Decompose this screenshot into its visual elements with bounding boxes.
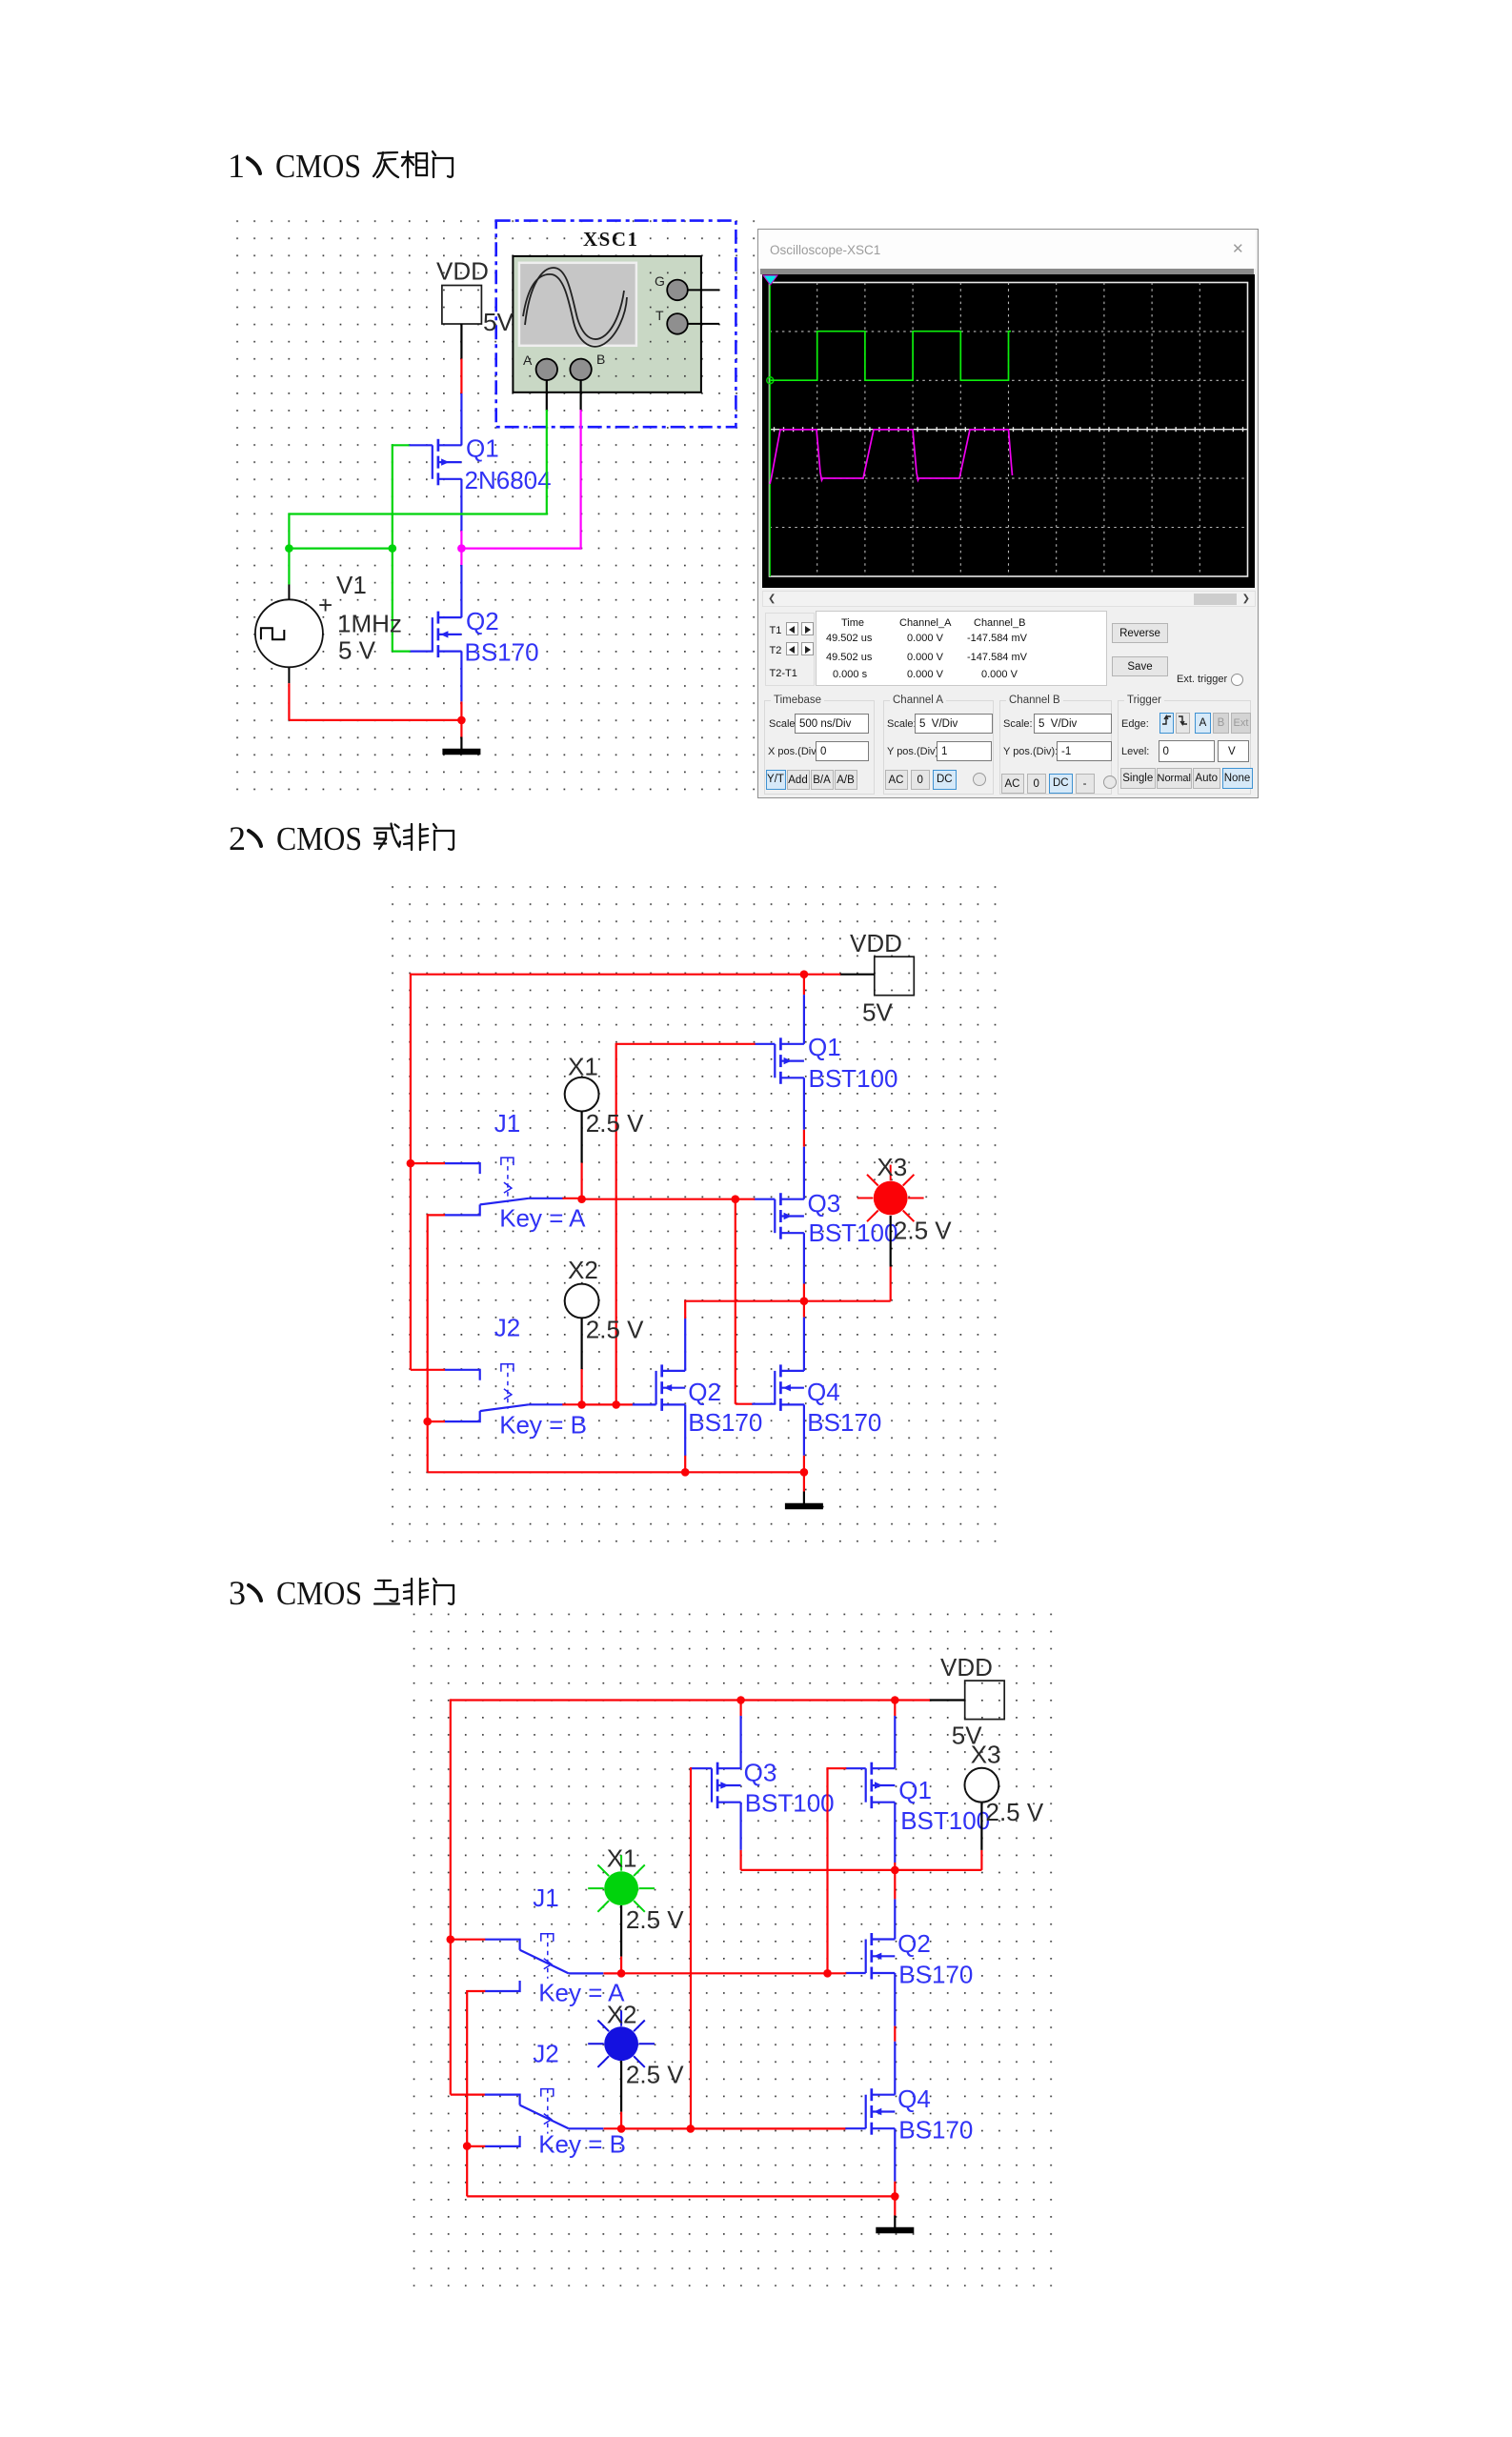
- junction VDD node: [800, 970, 809, 978]
- svg-text:BS170: BS170: [688, 1408, 762, 1437]
- transistor Q4 BS170 circuit3 (NMOS): [866, 2088, 896, 2135]
- wire output rail right: [895, 1869, 981, 1871]
- junction ground node: [891, 2192, 899, 2201]
- svg-text:X3: X3: [877, 1153, 907, 1181]
- wire J1 top contact lead red: [451, 1939, 486, 1941]
- power symbol VDD supply circuit2: [875, 957, 915, 995]
- wire VDD rail top: [411, 974, 804, 976]
- junction ground node Q2: [681, 1468, 690, 1477]
- wire key A net horizontal: [621, 1972, 827, 1974]
- svg-text:1: 1: [228, 147, 245, 185]
- wire VDD net red: [804, 974, 840, 976]
- wire VDD rail left vertical lower: [410, 1163, 412, 1370]
- wire ground stem red: [803, 1472, 805, 1491]
- wire VDD rail top: [451, 1699, 896, 1701]
- junction input node at V1: [285, 544, 293, 553]
- junction key B node: [612, 1400, 620, 1409]
- wire X1 stem black: [580, 1112, 582, 1163]
- wire Q1 gate lead blue: [409, 444, 433, 446]
- junction key A node at Q3: [732, 1195, 740, 1203]
- wire red segment Q3-Q4: [803, 1284, 805, 1318]
- svg-text:BS170: BS170: [465, 638, 539, 667]
- wire probe A vertical: [546, 410, 548, 514]
- wire output net magenta segment: [460, 531, 462, 565]
- transistor Q2 BS170 circuit3 (NMOS): [866, 1933, 896, 1980]
- junction key A node at Q2: [823, 1969, 832, 1978]
- wire Q3 source lead: [803, 1147, 805, 1199]
- wire switch common vertical lower: [466, 2146, 468, 2197]
- indicator lamp X1 circuit3 (lit): [588, 1855, 655, 1912]
- wire key B net horizontal 1: [621, 2127, 691, 2129]
- transistor Q1 BST100 circuit3 (PMOS): [866, 1762, 896, 1809]
- wire Q2 drain lead: [460, 565, 462, 617]
- wire X3 stem red: [980, 1850, 982, 1870]
- svg-text:Q4: Q4: [807, 1378, 840, 1406]
- svg-text:Q1: Q1: [898, 1776, 932, 1804]
- svg-text:VDD: VDD: [850, 929, 902, 957]
- wire input net vertical: [392, 444, 393, 651]
- wire X3 stem red: [890, 1267, 892, 1301]
- junction J1 supply node: [407, 1159, 415, 1168]
- ground circuit 1 ground: [442, 737, 480, 753]
- svg-text:5V: 5V: [862, 998, 893, 1027]
- junction key B node at Q3 branch: [687, 2125, 696, 2133]
- wire Q4 source lead: [803, 1404, 805, 1455]
- wire input net to Q2 gate: [393, 650, 412, 652]
- svg-text:VDD: VDD: [436, 257, 489, 286]
- ground circuit 2 ground: [785, 1492, 823, 1507]
- junction ground node Q4: [800, 1468, 809, 1477]
- wire Q1 source lead: [894, 1716, 896, 1768]
- wire ground rail right: [685, 1471, 804, 1473]
- svg-text:5V: 5V: [483, 308, 514, 336]
- indicator lamp X3 circuit3: [965, 1768, 999, 1803]
- junction key A node at X1: [577, 1195, 586, 1203]
- svg-text:VDD: VDD: [940, 1653, 993, 1682]
- wire Q2 drain lead: [894, 1899, 896, 1939]
- wire Q2 drain lead: [684, 1319, 686, 1371]
- wire VDD rail left vertical upper: [450, 1699, 452, 1939]
- wire switch common vertical upper: [427, 1214, 429, 1421]
- wire ground rail: [467, 2195, 895, 2197]
- wire X2 stem black: [580, 1318, 582, 1369]
- wire Q4 source lead: [894, 2128, 896, 2182]
- wire output net to probe B: [461, 547, 580, 549]
- wire key A to Q2 gate red: [828, 1972, 847, 1974]
- wire Q3 gate lead blue: [754, 1198, 775, 1200]
- ground circuit 3 ground: [876, 2216, 914, 2231]
- wire Q1 source red segment: [803, 975, 805, 995]
- wire Q3 source red segment: [739, 1701, 741, 1717]
- svg-text:BS170: BS170: [898, 1961, 973, 1989]
- svg-text:BST100: BST100: [809, 1218, 898, 1247]
- source V1 square wave generator: [255, 585, 333, 684]
- indicator lamp X2 circuit3 (lit): [588, 2010, 655, 2067]
- svg-text:CMOS: CMOS: [276, 820, 362, 857]
- wire VDD rail left vertical lower: [450, 1940, 452, 2095]
- switch J1 circuit3 (SPDT): [485, 1934, 604, 1991]
- svg-text:2.5 V: 2.5 V: [986, 1798, 1044, 1826]
- junction VDD node Q3: [736, 1696, 745, 1704]
- wire J2 top contact lead red: [451, 2094, 486, 2096]
- transistor Q3 BST100 circuit2 (PMOS): [775, 1193, 804, 1239]
- wire output rail left: [741, 1869, 896, 1871]
- wire Q1 source lead: [460, 393, 462, 445]
- wire key A net to Q3 gate: [736, 1198, 756, 1200]
- svg-text:BS170: BS170: [807, 1408, 881, 1437]
- wire J1 bottom contact lead red: [428, 1214, 445, 1216]
- op oscilloscope window XSC1: [757, 229, 1259, 798]
- wire VDD lead black: [929, 1699, 965, 1701]
- wire key A net vertical: [826, 1767, 828, 1973]
- wire J2 pole lead red: [562, 1403, 581, 1405]
- switch J2 circuit3 (SPDT): [485, 2089, 604, 2146]
- transistor Q4 BS170 circuit2 (NMOS): [775, 1364, 804, 1411]
- wire ground stem red: [894, 2196, 896, 2215]
- wire key B net vertical: [690, 1767, 692, 2128]
- svg-text:Key = A: Key = A: [499, 1204, 586, 1233]
- label section title 1 CMOS inverter: [228, 147, 453, 185]
- svg-text:Q1: Q1: [466, 434, 499, 463]
- switch J2 circuit2 (SPDT): [445, 1364, 564, 1421]
- wire VDD lead black: [839, 974, 875, 976]
- wire J2 bottom contact lead red: [428, 1420, 445, 1422]
- indicator lamp X3 circuit2 (lit): [857, 1165, 924, 1222]
- svg-text:Q2: Q2: [897, 1929, 931, 1958]
- svg-text:2.5 V: 2.5 V: [894, 1217, 952, 1245]
- wire X1 stem black: [620, 1905, 622, 1957]
- wire ground rail left: [428, 1471, 686, 1473]
- svg-text:CMOS: CMOS: [275, 148, 361, 185]
- label section title 3 CMOS NAND gate: [229, 1574, 454, 1612]
- svg-text:BS170: BS170: [898, 2116, 973, 2145]
- wire output rail right: [804, 1300, 891, 1302]
- wire Q2 source lead: [894, 1973, 896, 2026]
- wire X1 stem red: [580, 1163, 582, 1199]
- wire Q3 drain lead: [803, 1233, 805, 1283]
- svg-text:Q3: Q3: [808, 1189, 841, 1218]
- wire red segment Q2-Q4: [894, 2026, 896, 2042]
- svg-text:1MHz: 1MHz: [337, 610, 402, 638]
- wire switch common vertical upper: [466, 1990, 468, 2146]
- wire Q1 source lead: [803, 995, 805, 1044]
- svg-text:Q4: Q4: [897, 2085, 931, 2113]
- junction J1 supply node: [447, 1935, 455, 1944]
- wire key A net to Q1 gate: [828, 1767, 847, 1769]
- transistor Q2 BS170 (NMOS): [433, 612, 462, 658]
- svg-text:CMOS: CMOS: [276, 1575, 362, 1612]
- wire scope probe A stem: [546, 380, 548, 411]
- wire Q4 drain lead: [803, 1318, 805, 1371]
- wire Q2 source lead: [684, 1404, 686, 1455]
- wire scope probe B stem: [579, 380, 581, 411]
- wire Q1 drain lead: [894, 1803, 896, 1863]
- wire VDD net red segment: [460, 359, 462, 394]
- wire output rail left: [684, 1300, 804, 1302]
- svg-text:A: A: [523, 352, 533, 368]
- wire V1 negative lead red: [288, 683, 290, 720]
- wire key A net vertical: [735, 1199, 736, 1404]
- wire Q3 gate lead blue: [691, 1767, 712, 1769]
- wire key B net horizontal 1: [582, 1403, 616, 1405]
- svg-text:XSC1: XSC1: [583, 228, 639, 251]
- wire J2 bottom contact lead red: [467, 2145, 485, 2147]
- svg-text:J1: J1: [533, 1883, 558, 1912]
- svg-text:5 V: 5 V: [338, 636, 376, 665]
- wire Q4 gate lead blue: [845, 2127, 865, 2129]
- power symbol VDD supply circuit3: [965, 1681, 1004, 1720]
- wire probe B vertical: [579, 410, 581, 550]
- wire Q4 source red segment: [894, 2182, 896, 2197]
- wire X2 stem red: [580, 1369, 582, 1404]
- svg-text:2.5 V: 2.5 V: [626, 2061, 684, 2089]
- wire Q1 drain lead: [803, 1078, 805, 1130]
- wire Q4 gate lead blue: [752, 1403, 776, 1405]
- svg-text:2.5 V: 2.5 V: [626, 1905, 684, 1934]
- svg-text:X1: X1: [607, 1844, 637, 1873]
- wire key B net horizontal 2: [616, 1403, 634, 1405]
- svg-text:J2: J2: [494, 1314, 520, 1342]
- svg-text:J1: J1: [494, 1109, 520, 1138]
- wire Q1 source red segment: [894, 1701, 896, 1717]
- transistor Q1 2N6804 (PMOS): [433, 439, 462, 486]
- wire input net to Q1 gate: [393, 444, 410, 446]
- svg-text:T: T: [655, 308, 664, 323]
- wire Q2 gate lead blue: [845, 1972, 865, 1974]
- wire V1 positive lead green: [288, 549, 290, 585]
- wire X3 stem black: [890, 1216, 892, 1267]
- wire X2 stem black: [620, 2061, 622, 2112]
- wire J1 bottom contact lead red: [467, 1990, 485, 1992]
- wire Q2 source lead: [460, 652, 462, 702]
- wire key B net vertical: [615, 1043, 617, 1405]
- wire input net horizontal: [289, 547, 392, 549]
- wire key A to Q4 gate red: [736, 1403, 754, 1405]
- svg-text:Q3: Q3: [744, 1759, 777, 1787]
- svg-text:J2: J2: [533, 2040, 558, 2068]
- svg-text:Key = B: Key = B: [499, 1411, 587, 1440]
- svg-text:2: 2: [229, 819, 246, 857]
- junction ground node: [457, 716, 466, 725]
- wire Q4 drain lead: [894, 2042, 896, 2095]
- wire J1 pole lead red: [562, 1198, 581, 1199]
- wire red segment Q1-Q3: [803, 1130, 805, 1147]
- wire Q3 source lead: [739, 1716, 741, 1768]
- wire Q2 gate lead blue: [633, 1403, 656, 1405]
- wire key B net to Q1 gate: [616, 1043, 756, 1045]
- wire key A net horizontal: [582, 1198, 736, 1200]
- svg-text:Key = B: Key = B: [538, 2130, 626, 2159]
- junction input node at gate rail: [389, 544, 397, 553]
- label section title 2 CMOS NOR gate: [229, 819, 454, 857]
- wire X3 stem black: [980, 1803, 982, 1850]
- svg-text:3: 3: [229, 1574, 246, 1612]
- svg-text:2.5 V: 2.5 V: [586, 1109, 644, 1138]
- wire VDD rail left vertical upper: [410, 974, 412, 1164]
- svg-text:2N6804: 2N6804: [465, 466, 552, 494]
- svg-text:X2: X2: [568, 1256, 598, 1284]
- wire input net from V1 upper: [288, 513, 290, 548]
- wire probe A horizontal: [289, 513, 548, 514]
- wire X2 stem red: [620, 2112, 622, 2129]
- junction output node: [800, 1297, 809, 1305]
- junction output node: [891, 1866, 899, 1875]
- svg-text:BST100: BST100: [809, 1064, 898, 1093]
- wire Q1 drain red segment: [894, 1863, 896, 1899]
- svg-text:+: +: [318, 591, 333, 619]
- wire VDD net red: [895, 1699, 930, 1701]
- wire VDD lead black: [460, 324, 462, 359]
- indicator lamp X1 circuit2: [565, 1078, 599, 1112]
- wire J1 top contact lead red: [411, 1162, 445, 1164]
- wire Q2 source red segment: [460, 701, 462, 720]
- wire Q3 drain red segment: [739, 1850, 741, 1870]
- svg-text:2.5 V: 2.5 V: [586, 1316, 644, 1344]
- svg-text:BST100: BST100: [900, 1806, 990, 1835]
- wire J2 pole lead red: [604, 2127, 622, 2129]
- junction key B node at X2: [577, 1400, 586, 1409]
- wire J1 pole lead red: [604, 1972, 622, 1974]
- svg-text:B: B: [596, 352, 605, 367]
- wire Q2 drain red segment: [684, 1301, 686, 1319]
- wire key B net horizontal 2: [691, 2127, 847, 2129]
- transistor Q3 BST100 circuit3 (PMOS): [712, 1762, 741, 1809]
- power symbol VDD V1 supply: [442, 286, 482, 325]
- junction key A node at X1: [617, 1969, 626, 1978]
- wire Q1 gate lead blue: [845, 1767, 865, 1769]
- wire Q3 drain lead: [739, 1803, 741, 1850]
- wire ground stem red: [460, 720, 462, 737]
- junction VDD node Q1: [891, 1696, 899, 1704]
- junction J2 bottom contact node: [463, 2142, 472, 2150]
- op instrument oscilloscope icon XSC1: [513, 256, 719, 393]
- transistor Q1 BST100 circuit2 (PMOS): [775, 1037, 804, 1084]
- wire J2 top contact lead red: [411, 1369, 445, 1371]
- svg-text:G: G: [655, 273, 665, 289]
- junction output node: [457, 544, 466, 553]
- wire ground net horizontal: [289, 719, 461, 721]
- wire Q4 source red segment: [803, 1456, 805, 1473]
- junction J2 bottom contact node: [423, 1418, 432, 1426]
- svg-text:X2: X2: [607, 2001, 637, 2029]
- svg-text:Q1: Q1: [808, 1033, 841, 1061]
- wire Q2 source red segment: [684, 1456, 686, 1473]
- switch J1 circuit2 (SPDT): [445, 1158, 564, 1215]
- wire X1 stem red: [620, 1957, 622, 1974]
- indicator lamp X2 circuit2: [565, 1284, 599, 1319]
- svg-text:X3: X3: [971, 1741, 1001, 1769]
- wire Q1 drain lead: [460, 479, 462, 531]
- wire Q2 gate lead blue: [411, 650, 433, 652]
- instrument boundary XSC1: [496, 221, 736, 428]
- svg-text:V1: V1: [336, 571, 367, 599]
- wire Q1 gate lead blue: [755, 1043, 776, 1045]
- wire switch common vertical lower: [427, 1421, 429, 1472]
- svg-text:X1: X1: [568, 1053, 598, 1081]
- transistor Q2 BS170 circuit2 (NMOS): [656, 1364, 686, 1411]
- svg-text:Q2: Q2: [688, 1378, 721, 1406]
- junction key B node at X2: [617, 2125, 626, 2133]
- svg-text:BST100: BST100: [745, 1789, 835, 1818]
- svg-text:Q2: Q2: [466, 607, 499, 635]
